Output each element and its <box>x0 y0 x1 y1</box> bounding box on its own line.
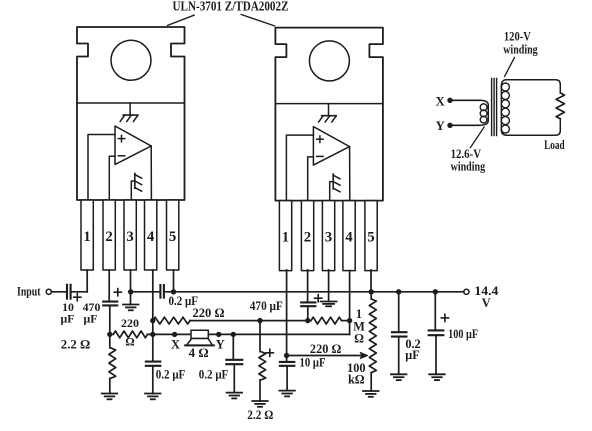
svg-text:0.2 μF: 0.2 μF <box>156 367 186 381</box>
svg-text:1: 1 <box>83 229 90 245</box>
svg-text:2: 2 <box>105 229 112 245</box>
svg-text:220: 220 <box>121 316 139 330</box>
svg-text:winding: winding <box>503 43 538 57</box>
svg-text:Load: Load <box>544 138 565 152</box>
svg-text:Y: Y <box>436 119 445 133</box>
svg-text:μF: μF <box>405 348 419 362</box>
svg-text:ULN-3701 Z/TDA2002Z: ULN-3701 Z/TDA2002Z <box>173 0 289 14</box>
svg-text:3: 3 <box>325 229 332 245</box>
svg-text:μF: μF <box>61 311 75 325</box>
svg-text:10 μF: 10 μF <box>300 356 326 370</box>
svg-text:2: 2 <box>304 229 311 245</box>
svg-text:2.2 Ω: 2.2 Ω <box>247 408 273 422</box>
svg-text:4: 4 <box>345 229 353 245</box>
svg-text:220 Ω: 220 Ω <box>310 342 342 356</box>
svg-text:120-V: 120-V <box>504 30 531 44</box>
svg-text:0.2 μF: 0.2 μF <box>199 367 229 381</box>
svg-text:4: 4 <box>147 229 155 245</box>
svg-text:5: 5 <box>367 229 374 245</box>
svg-text:V: V <box>482 296 491 310</box>
svg-text:X: X <box>436 95 445 109</box>
svg-text:Input: Input <box>17 284 41 298</box>
svg-text:4 Ω: 4 Ω <box>189 346 209 360</box>
svg-text:2.2 Ω: 2.2 Ω <box>61 338 91 352</box>
svg-text:Ω: Ω <box>354 332 364 346</box>
svg-text:100 μF: 100 μF <box>448 327 478 341</box>
svg-text:Y: Y <box>216 337 225 351</box>
svg-text:Ω: Ω <box>125 335 134 349</box>
svg-text:1: 1 <box>282 229 289 245</box>
svg-text:X: X <box>171 338 180 352</box>
svg-text:winding: winding <box>451 159 486 173</box>
svg-text:kΩ: kΩ <box>348 372 365 386</box>
svg-text:μF: μF <box>84 311 98 325</box>
svg-text:3: 3 <box>126 229 133 245</box>
svg-text:470 μF: 470 μF <box>250 299 283 313</box>
svg-text:220 Ω: 220 Ω <box>193 306 225 320</box>
svg-text:5: 5 <box>169 229 176 245</box>
